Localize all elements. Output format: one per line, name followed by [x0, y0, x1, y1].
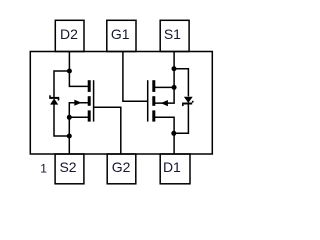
zener diode of Q2 (cathode up) [49, 95, 59, 104]
wire diode branch top Q1 [174, 69, 188, 97]
zener diode of Q1 (cathode down) [182, 97, 194, 106]
wire body stub of Q2 down to S2 pin [69, 103, 88, 154]
wire diode branch bottom Q2 [54, 104, 69, 136]
svg-text:S2: S2 [59, 159, 76, 175]
svg-text:G2: G2 [112, 159, 131, 175]
package outline [30, 52, 212, 155]
junction dot Q1 source/diode anode [172, 66, 177, 71]
wire G1 pin to gate of Q1 [123, 52, 148, 102]
transistor Q1 gate bar [147, 80, 149, 121]
transistor Q2 gate bar [93, 80, 95, 121]
junction dot Q1 diode cathode [171, 131, 176, 136]
transistor Q1 channel bars [152, 80, 155, 121]
svg-text:1: 1 [40, 162, 47, 176]
pin box S2 [55, 154, 84, 184]
junction dot Q2 diode anode [67, 134, 72, 139]
wire gate of Q2 to G2 pin [94, 107, 121, 154]
junction dot Q2 source [67, 115, 72, 120]
pin box S1 [160, 20, 189, 51]
transistor Q1 body arrow [161, 100, 168, 106]
wire S1 pin to body stub of Q1 [153, 52, 175, 104]
pin box D2 [55, 20, 84, 51]
junction dot Q1 source stub [172, 85, 177, 90]
transistor Q2 body arrow [74, 100, 81, 106]
wire diode branch top Q2 [54, 71, 69, 97]
pin box D1 [160, 154, 190, 184]
pin box G2 [107, 154, 136, 184]
wire D2 pin to drain of Q2 [69, 52, 88, 87]
svg-text:G1: G1 [111, 26, 130, 42]
svg-text:D2: D2 [60, 26, 78, 42]
svg-text:D1: D1 [163, 159, 181, 175]
svg-text:S1: S1 [164, 26, 181, 42]
wire drain stub of Q1 to D1 pin [153, 117, 175, 154]
junction dot Q2 drain/diode cathode [67, 69, 72, 74]
pin box G1 [107, 20, 136, 51]
transistor Q2 channel bars [88, 80, 91, 121]
wire source stub of Q2 [69, 116, 88, 118]
wire source stub of Q1 [153, 86, 175, 88]
wire diode branch bottom Q1 [174, 104, 188, 133]
